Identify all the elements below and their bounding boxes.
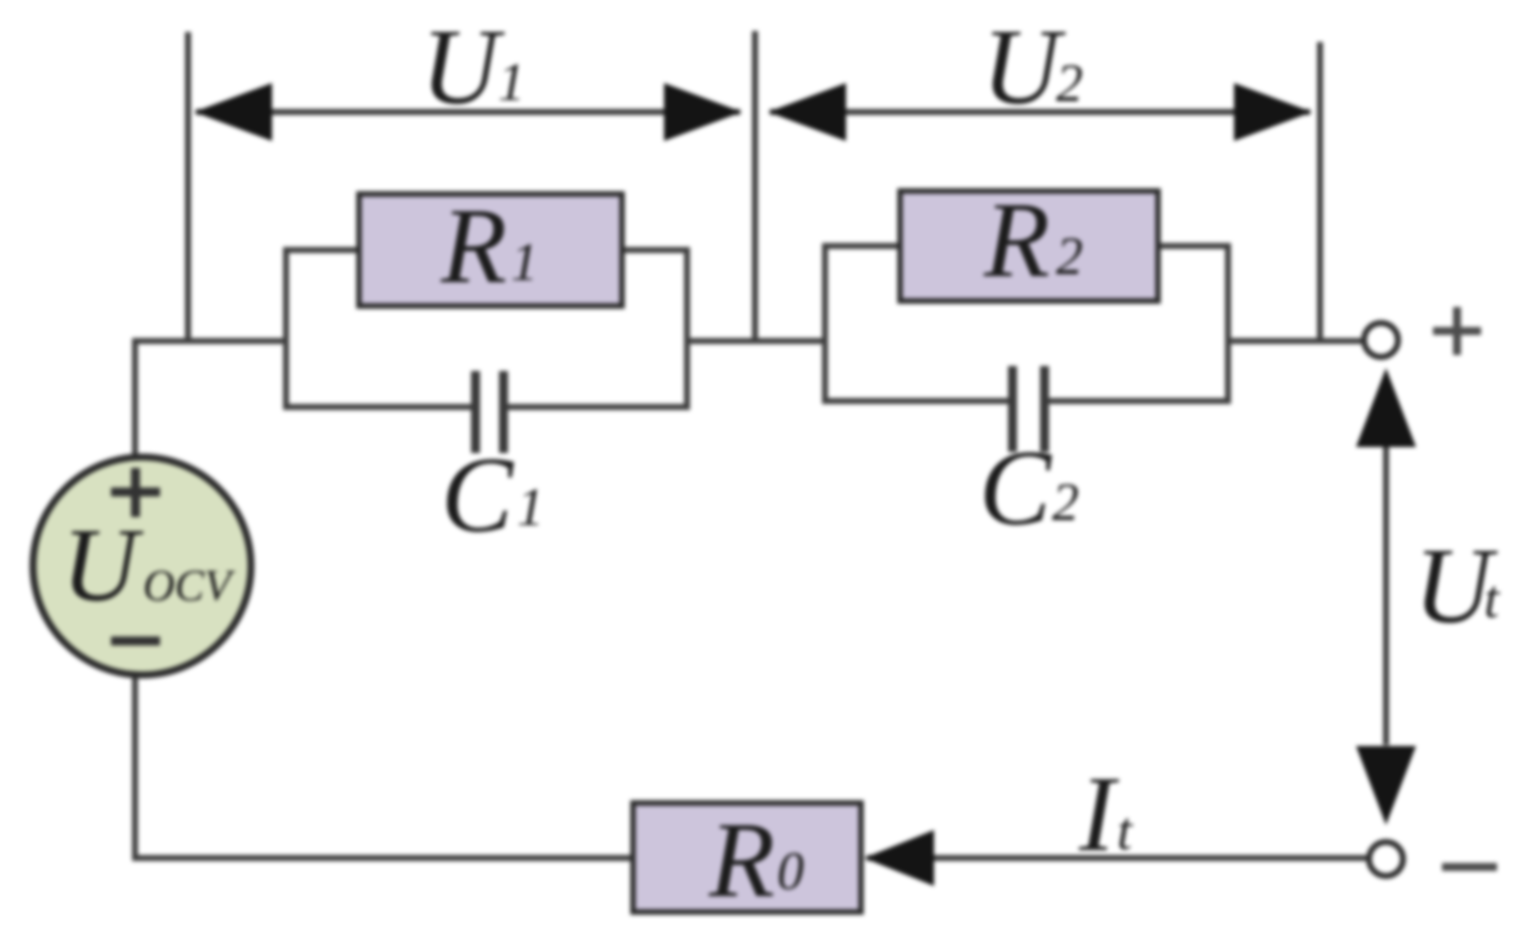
svg-text:2: 2 (1056, 53, 1083, 113)
svg-text:1: 1 (498, 52, 525, 112)
svg-text:U: U (982, 8, 1066, 127)
svg-text:1: 1 (517, 477, 544, 537)
svg-text:0: 0 (777, 841, 804, 901)
svg-text:OCV: OCV (143, 561, 236, 610)
svg-text:C: C (441, 436, 515, 555)
svg-text:U: U (62, 506, 144, 623)
svg-text:R: R (983, 181, 1050, 300)
svg-text:R: R (708, 801, 775, 920)
svg-text:1: 1 (511, 232, 538, 292)
svg-text:R: R (440, 187, 507, 306)
svg-text:2: 2 (1052, 472, 1079, 532)
svg-text:2: 2 (1056, 226, 1083, 286)
svg-text:C: C (979, 429, 1053, 548)
svg-text:t: t (1484, 569, 1501, 629)
svg-text:U: U (421, 8, 505, 127)
svg-text:I: I (1078, 755, 1120, 874)
svg-text:t: t (1117, 801, 1134, 861)
